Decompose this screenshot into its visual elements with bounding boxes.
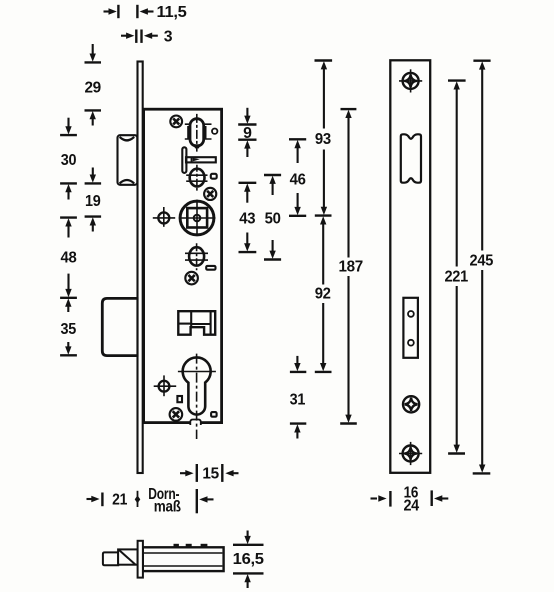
latch bevel body [118, 549, 138, 564]
small slot right of oval C [206, 266, 215, 270]
dim 29 [84, 44, 101, 126]
dim 245 [470, 61, 494, 474]
T lever [182, 147, 216, 173]
svg-text:19: 19 [85, 193, 101, 210]
dim 21 / Dornmass [87, 486, 214, 515]
svg-text:15: 15 [202, 466, 219, 483]
dim 9 [238, 108, 256, 157]
dim 35 [60, 298, 77, 355]
svg-text:21: 21 [112, 491, 127, 508]
svg-text:31: 31 [290, 391, 306, 408]
svg-text:50: 50 [265, 211, 281, 228]
bottom view [103, 541, 224, 578]
case internals [153, 114, 218, 439]
screw C [185, 272, 198, 285]
case bottom notch [190, 420, 201, 426]
dim 16/24 [371, 485, 449, 515]
torx screw [403, 396, 419, 412]
small slot left of cylinder [177, 396, 182, 402]
svg-text:maß: maß [154, 499, 181, 516]
oval B follower [186, 165, 207, 191]
hub small circle left [153, 207, 175, 227]
faceplate front view [390, 60, 430, 473]
dim 3 top [121, 28, 173, 45]
latch top crescent [120, 137, 135, 142]
latch slot [401, 134, 421, 182]
dim 16,5 [233, 531, 264, 589]
screw B [204, 188, 216, 200]
svg-text:93: 93 [315, 131, 331, 148]
screw A top-left [170, 116, 182, 128]
screw D [170, 408, 183, 421]
latch bottom crescent [120, 180, 135, 183]
dim 50 [264, 175, 281, 260]
svg-text:46: 46 [290, 172, 306, 189]
deadbolt mechanism [178, 311, 215, 335]
faceplate plate [390, 60, 430, 473]
small slot right of oval B [211, 174, 217, 179]
dim 30 [60, 118, 77, 200]
small slot right bottom [211, 412, 217, 417]
dim 43 [239, 183, 257, 252]
plate with two holes [403, 298, 418, 358]
dim 46 [289, 139, 306, 216]
faceplate cross-section [138, 541, 143, 578]
svg-text:3: 3 [164, 28, 173, 45]
handle hub [179, 200, 216, 236]
svg-text:187: 187 [338, 259, 363, 276]
dim 19 [85, 168, 102, 232]
dim 15 [180, 464, 239, 483]
dim 92 [315, 216, 332, 372]
dim 187 [338, 109, 363, 423]
dimensions [60, 4, 493, 588]
cylinder small circle left [154, 375, 177, 396]
dim 31 [290, 356, 307, 439]
screw head marks [174, 544, 179, 547]
svg-text:245: 245 [470, 253, 494, 270]
lock case side view [144, 109, 222, 425]
oval C follower [185, 243, 208, 270]
dim 221 [444, 81, 468, 454]
svg-text:30: 30 [61, 152, 77, 169]
svg-text:221: 221 [444, 269, 468, 286]
euro cylinder [178, 354, 216, 439]
deadbolt side view [102, 297, 138, 356]
svg-text:29: 29 [84, 80, 101, 97]
svg-text:43: 43 [239, 211, 255, 228]
dim 48 [60, 218, 77, 298]
small hole right of follower [212, 129, 217, 134]
svg-text:35: 35 [61, 321, 77, 338]
svg-text:24: 24 [403, 498, 419, 515]
latch bevel diagonal [119, 550, 136, 565]
dim 11,5 top [104, 4, 187, 21]
case body [143, 547, 224, 571]
svg-text:16,5: 16,5 [233, 551, 264, 568]
latch follower assembly [185, 114, 212, 152]
svg-text:48: 48 [61, 250, 77, 267]
dim 93 [315, 61, 333, 216]
bottom screw [399, 442, 422, 465]
top screw [399, 69, 422, 92]
latch bolt side view [118, 135, 138, 185]
svg-text:11,5: 11,5 [157, 4, 187, 21]
faceplate side view bar [138, 62, 143, 474]
svg-text:92: 92 [315, 286, 331, 303]
latch tip [103, 552, 118, 565]
